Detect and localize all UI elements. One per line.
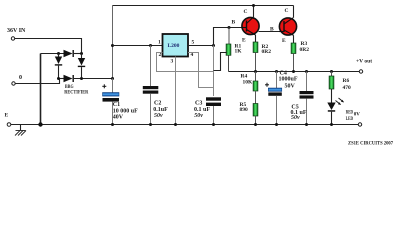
node C5 junction xyxy=(305,70,308,73)
node R6 junction xyxy=(330,70,333,73)
svg-text:3: 3 xyxy=(171,59,174,65)
wire pin4 stub down to node xyxy=(188,53,214,88)
node top rail Q1 collector xyxy=(252,4,255,7)
capacitor C5 xyxy=(306,72,308,92)
wire pin5 output xyxy=(188,45,214,47)
node bridge output junction xyxy=(111,77,114,80)
resistor R5 xyxy=(253,104,258,117)
node bridge top-left junction xyxy=(57,52,60,55)
wire pin2 stub and sense line xyxy=(157,53,214,72)
node bridge bottom-right xyxy=(80,77,83,80)
wire R1 bottom to output line xyxy=(228,55,230,71)
svg-text:470: 470 xyxy=(343,85,352,91)
wire R5 to rail xyxy=(255,116,257,125)
svg-text:L200: L200 xyxy=(168,43,180,49)
svg-text:1000uF: 1000uF xyxy=(279,76,298,82)
svg-text:0R2: 0R2 xyxy=(300,47,310,53)
node R2/R4 junction xyxy=(254,70,257,73)
svg-text:R6: R6 xyxy=(343,78,350,84)
resistor R3 xyxy=(291,43,296,54)
transistor Q2 xyxy=(279,18,296,35)
wire 36V IN to bridge xyxy=(15,39,82,54)
svg-text:5: 5 xyxy=(192,40,195,46)
diode D4 bridge bottom (right-pointing) xyxy=(64,75,73,83)
capacitor C2 xyxy=(150,46,152,87)
svg-text:50V: 50V xyxy=(285,83,296,89)
svg-text:40V: 40V xyxy=(113,114,124,120)
node rail R5 junction xyxy=(254,123,257,126)
svg-text:C3: C3 xyxy=(195,101,202,107)
node C4 junction xyxy=(275,70,278,73)
node rail C3 junction xyxy=(212,123,215,126)
svg-text:RECTIFIER: RECTIFIER xyxy=(64,90,89,96)
wire pin3 to ground rail xyxy=(175,57,177,125)
resistor R2 xyxy=(253,42,258,53)
svg-text:50v: 50v xyxy=(154,113,163,119)
svg-text:+V out: +V out xyxy=(356,59,372,65)
svg-text:ZS1E CIRCUITS 2007: ZS1E CIRCUITS 2007 xyxy=(348,141,393,147)
wire Q2 emitter to R3 xyxy=(293,35,295,43)
svg-text:B: B xyxy=(232,20,236,26)
wire bridge top line xyxy=(41,53,64,55)
ground xyxy=(20,125,22,131)
capacitor C3 xyxy=(206,97,221,100)
wire output line xyxy=(229,71,360,73)
diode D3 bridge right (down-pointing) xyxy=(81,54,83,59)
node pin5 junction xyxy=(212,44,215,47)
wire main vertical riser xyxy=(112,6,114,79)
node rail C2 junction xyxy=(149,123,152,126)
resistor R1 xyxy=(228,28,230,45)
capacitor C1 xyxy=(112,79,114,93)
wire top rail xyxy=(113,5,294,7)
node rail C1 junction xyxy=(111,123,114,126)
wire LED to rail xyxy=(331,112,333,125)
resistor R6 xyxy=(331,72,333,77)
svg-text:0.1uF: 0.1uF xyxy=(153,107,168,113)
wire bridge bottom line xyxy=(59,78,64,80)
svg-text:10K: 10K xyxy=(243,80,254,86)
svg-text:E: E xyxy=(242,38,246,44)
svg-text:B: B xyxy=(270,27,274,33)
wire top rail corner to Q2 collector xyxy=(293,6,295,18)
wire input to L200 pin1 xyxy=(113,45,163,47)
capacitor C4 xyxy=(276,72,278,89)
wire R2 bottom to output line xyxy=(255,53,257,72)
svg-text:0.1 uF: 0.1 uF xyxy=(194,107,210,113)
svg-text:E: E xyxy=(5,113,9,119)
node rail C4 junction xyxy=(275,123,278,126)
svg-text:36V IN: 36V IN xyxy=(7,28,26,34)
wire bridge left column to ground rail xyxy=(40,54,42,125)
wire Q1 emitter to R2 xyxy=(255,35,257,42)
transistor Q1 xyxy=(242,17,259,34)
svg-text:C: C xyxy=(244,9,248,15)
wire ground rail xyxy=(11,124,358,126)
node bridge 36V junction xyxy=(80,52,83,55)
diode D2 bridge left (down-pointing) xyxy=(58,54,60,57)
svg-text:0R2: 0R2 xyxy=(262,49,272,55)
wire Q1 collector xyxy=(253,6,255,18)
svg-text:1: 1 xyxy=(158,40,161,46)
diode D1 bridge top (right-pointing) xyxy=(64,50,73,58)
svg-text:50v: 50v xyxy=(291,115,300,121)
svg-text:C: C xyxy=(285,8,289,14)
svg-text:C2: C2 xyxy=(154,101,161,107)
node R1 tap on base line xyxy=(228,26,231,29)
svg-text:C1: C1 xyxy=(113,102,120,108)
wire black hook pin5-node line to R1 side xyxy=(214,53,227,71)
wire vertical from pin5 node down to C3 xyxy=(213,46,215,97)
svg-text:890: 890 xyxy=(240,107,249,113)
node C2 tap xyxy=(149,44,152,47)
svg-text:E: E xyxy=(282,38,286,44)
svg-text:50v: 50v xyxy=(194,113,203,119)
svg-text:0: 0 xyxy=(19,75,22,81)
svg-text:0V: 0V xyxy=(354,112,361,117)
wire base line from pin5 node up to Q1 base xyxy=(214,28,242,46)
svg-text:RED: RED xyxy=(346,111,353,116)
svg-text:LED: LED xyxy=(346,117,353,122)
svg-text:1K: 1K xyxy=(235,49,243,55)
wire 0 input to bridge xyxy=(15,79,59,84)
node R3 output junction xyxy=(292,70,295,73)
wire R6 to LED xyxy=(331,89,333,103)
wire R3 bottom to output line xyxy=(293,54,295,72)
wire Q1 to Q2 base xyxy=(259,31,280,33)
regulator U1 L200 xyxy=(163,34,189,57)
resistor R4 xyxy=(255,72,257,82)
node rail pin3 junction xyxy=(174,123,177,126)
node rail bridge junction xyxy=(38,122,42,126)
node input line junction xyxy=(111,44,114,47)
node rail LED junction xyxy=(330,123,333,126)
wire R4 to R5 xyxy=(255,91,257,104)
node bridge bottom-left xyxy=(57,77,60,80)
LED D5 xyxy=(327,103,335,111)
node rail C5 junction xyxy=(305,123,308,126)
